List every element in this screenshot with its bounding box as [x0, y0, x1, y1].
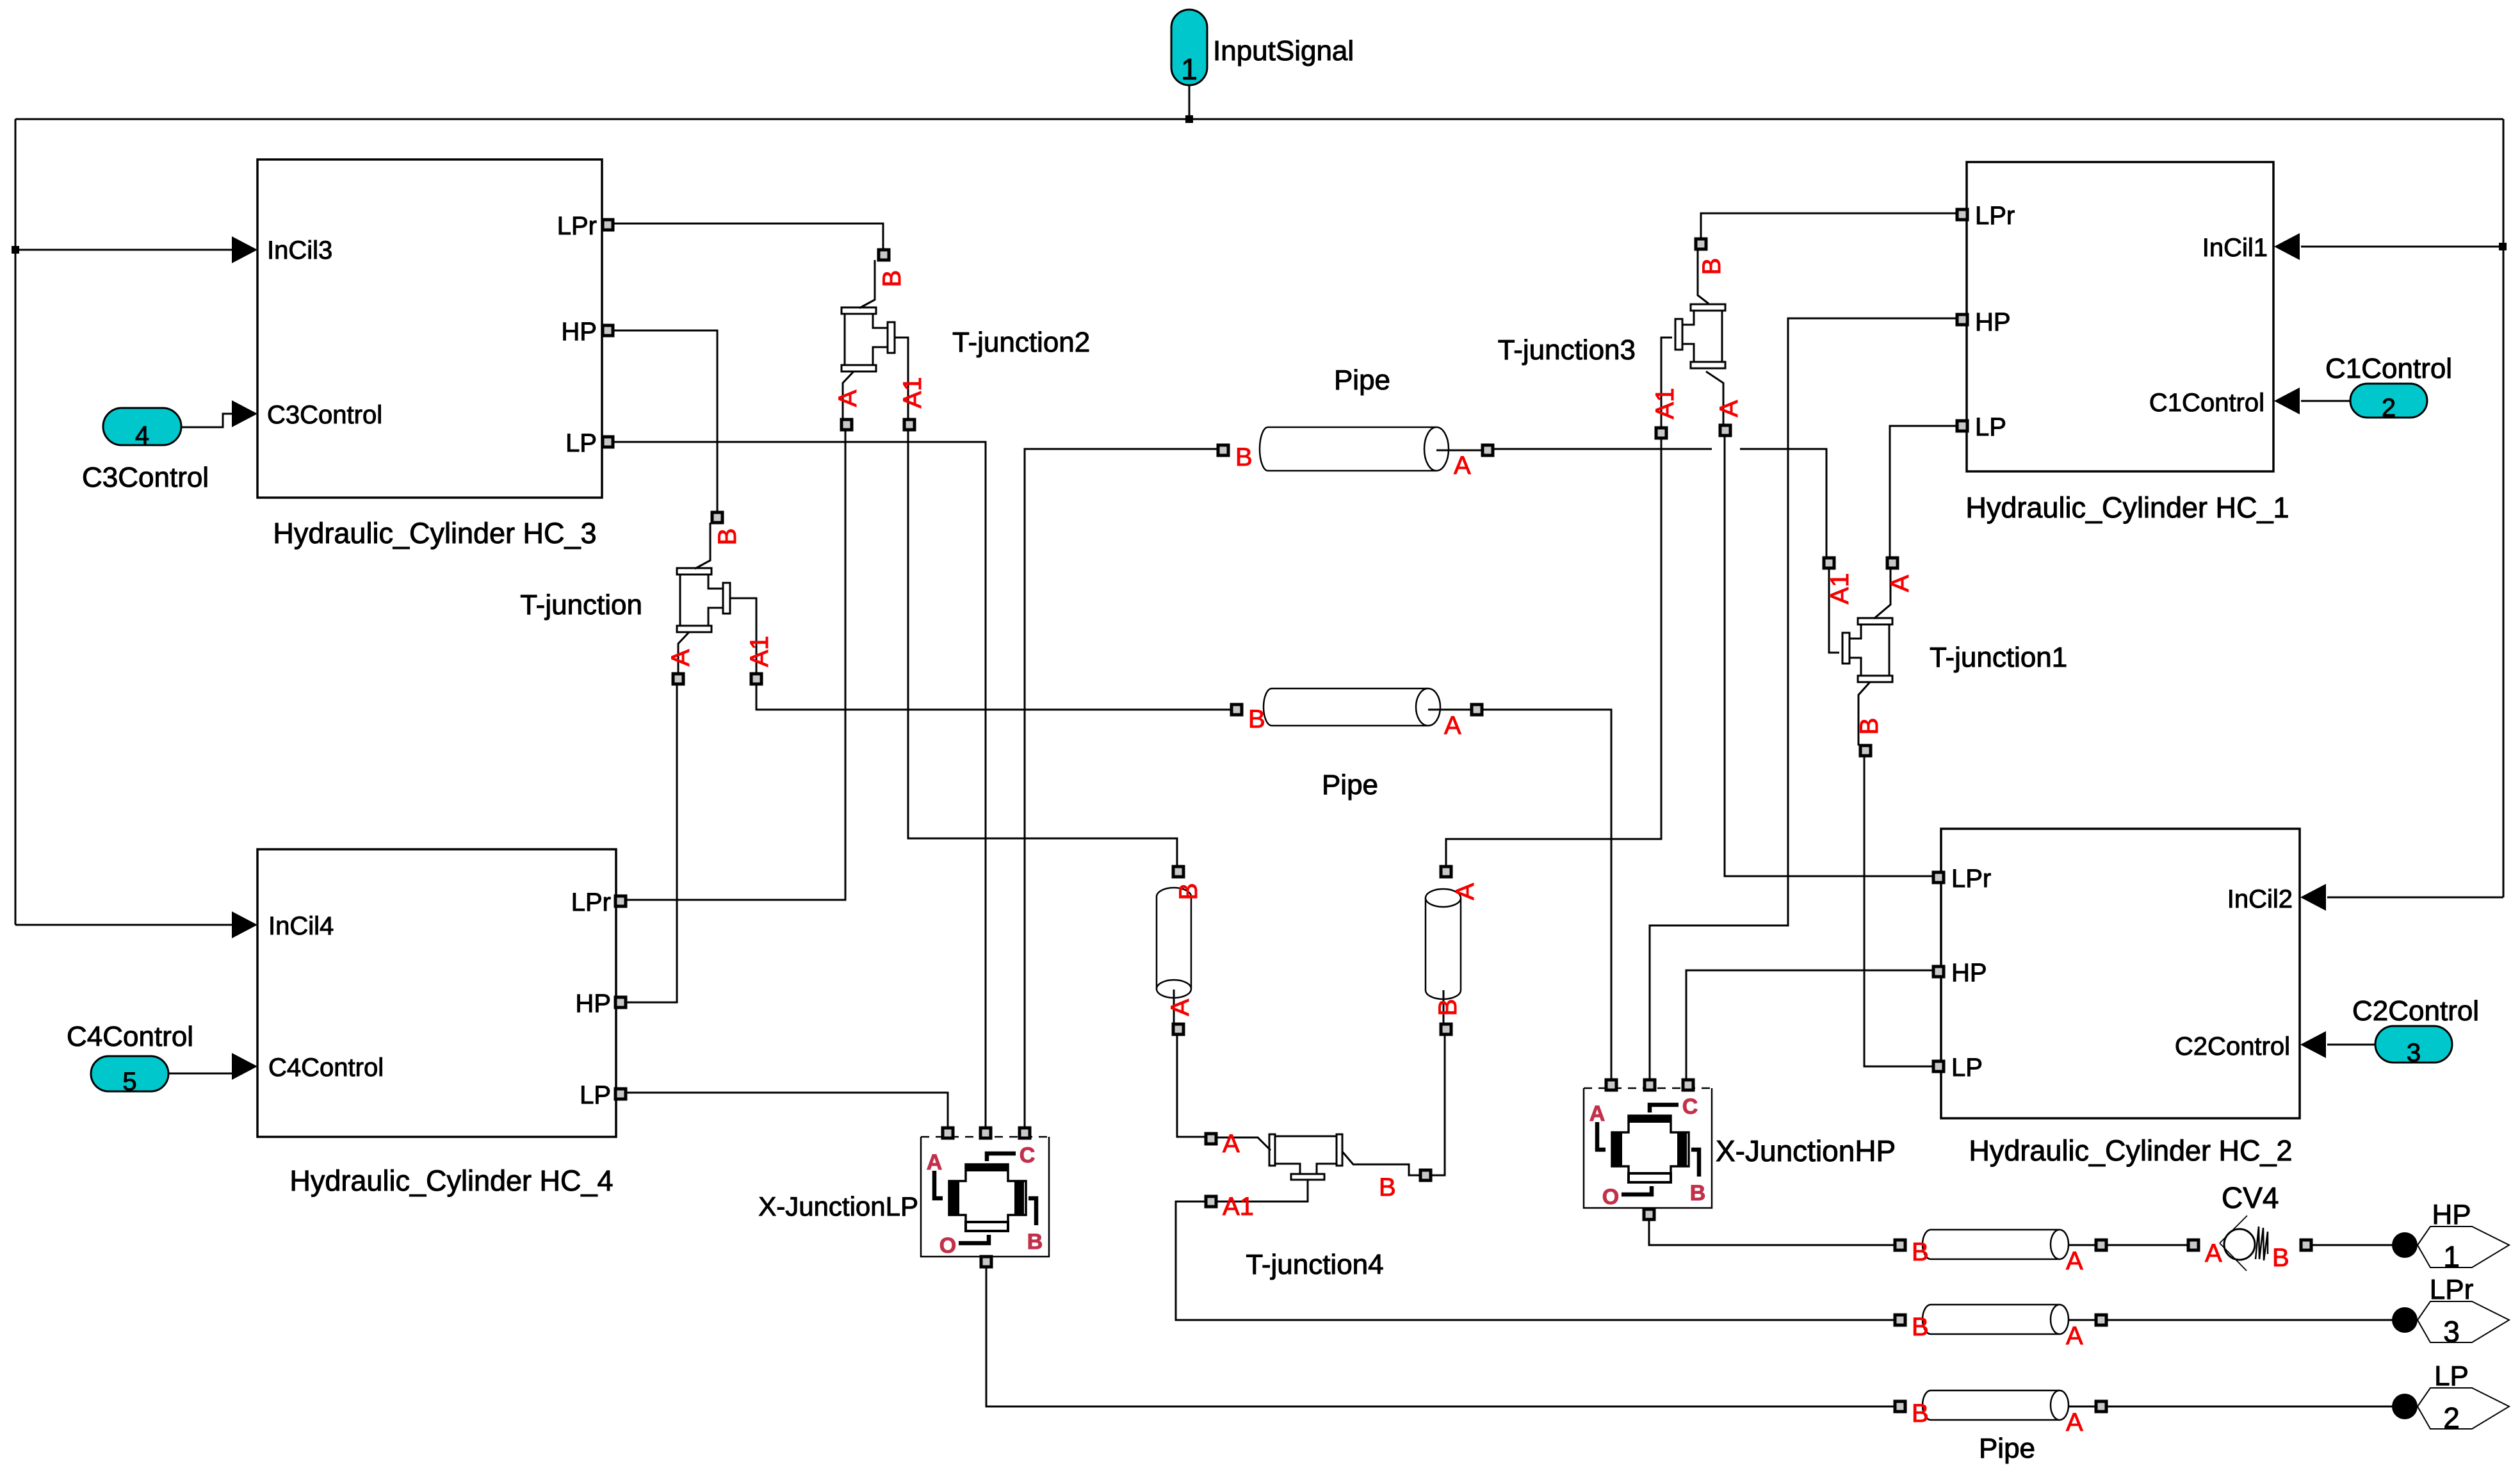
svg-text:C1Control: C1Control [2325, 353, 2452, 384]
left vpipe A stub [1173, 990, 1175, 1024]
svg-text:A: A [1223, 1130, 1240, 1158]
output port LP 2 [2392, 1394, 2418, 1419]
svg-text:3: 3 [2407, 1039, 2421, 1067]
svg-text:A: A [927, 1150, 943, 1175]
wire T-junction.A1 to Pipe2.B [756, 684, 1232, 710]
X-JunctionLP cross icon [949, 1164, 1026, 1231]
Pipe block (left vertical) icon [1157, 897, 1191, 989]
svg-text:A1: A1 [745, 636, 774, 667]
svg-text:A: A [2205, 1239, 2222, 1267]
Pipe2 A stub [1428, 709, 1472, 711]
svg-text:LP: LP [2434, 1360, 2469, 1392]
svg-text:B: B [1698, 258, 1726, 275]
wire T-junction4.A1 to LPr pipe.B [1176, 1202, 1895, 1320]
T-junction2 A1 stub [895, 338, 908, 420]
port square HC_1.LP [1957, 421, 1967, 431]
svg-text:A: A [2066, 1247, 2083, 1275]
port square Pipe2.B [1232, 705, 1242, 715]
svg-text:A: A [1451, 883, 1479, 900]
port square X-JunctionHP.B-top [1683, 1080, 1693, 1090]
wire HC_3.LPr to T-junction2.B [613, 224, 883, 250]
port square T-junction4.A [1206, 1134, 1216, 1144]
port square X-JunctionLP.O-bottom [981, 1257, 991, 1267]
X-JunctionLP port hooks [934, 1171, 943, 1198]
X-JunctionHP block outline [1584, 1088, 1712, 1208]
output port HP 1 [2392, 1232, 2418, 1258]
svg-text:C4Control: C4Control [268, 1054, 384, 1082]
port square HC_1.LPr [1957, 209, 1967, 220]
port square T-junction.B [712, 512, 722, 523]
wire T-junction3.A to HC_2.LPr [1725, 436, 1933, 876]
X-JunctionLP block outline [921, 1137, 1049, 1257]
block Hydraulic_Cylinder HC_4 [257, 849, 616, 1137]
port square HC_2.HP [1933, 966, 1944, 977]
wire T-junction4.B to rightpipe.B [1431, 1035, 1445, 1175]
svg-text:A: A [1715, 400, 1743, 417]
svg-text:A: A [1444, 712, 1461, 740]
port square T-junction.A1 [751, 674, 761, 684]
port square T-junction4.B [1420, 1170, 1431, 1180]
T-junction4 A1 stub [1217, 1180, 1308, 1202]
port square LPpipe.B [1895, 1401, 1905, 1412]
wire X-JunctionLP.B to Pipe1.B [1025, 449, 1218, 1128]
port square leftpipe.B [1173, 867, 1183, 877]
port square LPpipe.A [2096, 1401, 2106, 1412]
wire Pipe1.A east segment [1493, 448, 1712, 450]
port square Pipe1.A [1483, 445, 1493, 455]
wire to T-junction1.A1 (after hop gap) [1740, 449, 1826, 558]
svg-text:O: O [1602, 1185, 1619, 1209]
svg-text:Hydraulic_Cylinder HC_4: Hydraulic_Cylinder HC_4 [289, 1164, 613, 1197]
svg-text:HP: HP [2432, 1199, 2471, 1230]
svg-text:A: A [667, 649, 695, 666]
wire T-junction1.B to HC_2.LP [1864, 756, 1933, 1066]
port square HC_4.LPr [615, 896, 626, 906]
svg-text:Pipe: Pipe [1979, 1433, 2035, 1464]
svg-text:Pipe: Pipe [1322, 769, 1378, 801]
wire T-junction2.A to HC_4.LPr [626, 430, 845, 900]
arrow C3Control [232, 400, 257, 427]
svg-text:B: B [1175, 883, 1203, 900]
T-junction3 A stub [1706, 371, 1723, 425]
T-junction2 A stub [843, 371, 854, 420]
wire right drop [2503, 119, 2505, 897]
svg-text:LPr: LPr [571, 888, 611, 917]
svg-text:Hydraulic_Cylinder HC_1: Hydraulic_Cylinder HC_1 [1965, 491, 2289, 524]
T-junction1 A1 stub [1829, 568, 1839, 653]
T-junction2 B stub [859, 260, 875, 308]
svg-text:A: A [1589, 1102, 1605, 1126]
wire to InCil2 [2327, 897, 2503, 899]
wire top bus [15, 118, 2503, 120]
wire C2Control to HC_2 [2327, 1044, 2375, 1046]
svg-text:Pipe: Pipe [1334, 364, 1390, 396]
Pipe block (top middle) icon [1268, 427, 1436, 471]
port square HC_3.LP [603, 437, 613, 447]
svg-text:O: O [939, 1234, 956, 1258]
wire HC_3.LP to X-JunctionLP.C [613, 442, 986, 1128]
inport 2 C1Control [2350, 384, 2427, 418]
svg-text:B: B [1235, 443, 1253, 471]
svg-text:InCil4: InCil4 [268, 912, 334, 940]
LPr pipe A stub [2069, 1319, 2096, 1321]
port square CV4.A [2188, 1240, 2199, 1250]
svg-text:A1: A1 [1826, 573, 1854, 605]
arrow InCil2 [2300, 884, 2326, 911]
port square Pipe1.B [1218, 445, 1228, 455]
svg-text:T-junction: T-junction [520, 589, 642, 621]
junction InputSignal/top bus [1185, 115, 1193, 123]
port square HC_2.LP [1933, 1061, 1944, 1072]
svg-text:2: 2 [2443, 1401, 2460, 1435]
wire Pipe2.A to X-JunctionHP.A [1482, 710, 1611, 1080]
port square rightpipe.A [1441, 867, 1451, 877]
wire LPpipe.A to outport LP [2107, 1406, 2393, 1408]
port square X-JunctionHP.C-top [1645, 1080, 1655, 1090]
wire leftpipe.A to T-junction4.A [1177, 1035, 1205, 1137]
svg-text:CV4: CV4 [2222, 1181, 2279, 1214]
T-junction4 B stub [1342, 1152, 1420, 1175]
port square T-junction4.A1 [1206, 1196, 1216, 1207]
port square X-JunctionLP.A-top [943, 1128, 953, 1138]
X-JunctionHP cross icon [1612, 1116, 1689, 1182]
Pipe block (LP row) icon [1931, 1390, 2060, 1420]
port square T-junction.A [673, 674, 683, 684]
junction left InCil3 branch [12, 246, 19, 254]
wire C4Control to HC_4 [168, 1066, 238, 1073]
Pipe block (LPr row) icon [1931, 1305, 2060, 1334]
svg-text:X-JunctionLP: X-JunctionLP [758, 1191, 918, 1221]
port square T-junction2.B [879, 250, 889, 260]
T-junction3 A1 stub [1661, 338, 1672, 428]
svg-text:A1: A1 [1223, 1193, 1254, 1221]
svg-text:C3Control: C3Control [82, 462, 209, 493]
LP pipe A stub [2069, 1406, 2096, 1408]
svg-text:B: B [1248, 705, 1265, 733]
svg-text:A: A [1886, 575, 1914, 592]
wire HC_1.LP to T-junction1.A [1890, 426, 1957, 558]
port square Pipe2.A [1472, 705, 1482, 715]
svg-text:1: 1 [2443, 1240, 2460, 1273]
svg-text:B: B [713, 528, 742, 546]
port square T-junction3.B [1696, 239, 1706, 249]
svg-text:X-JunctionHP: X-JunctionHP [1716, 1134, 1896, 1168]
svg-text:LPr: LPr [557, 212, 597, 240]
HP pipe A stub [2069, 1244, 2096, 1246]
svg-text:B: B [878, 270, 906, 288]
wire C3Control to HC_3 [181, 414, 233, 427]
arrow InCil3 [232, 236, 257, 263]
svg-text:B: B [1690, 1181, 1706, 1205]
svg-text:1: 1 [1181, 53, 1198, 86]
Pipe block (HP row) icon [1931, 1230, 2060, 1259]
arrow InCil1 [2274, 233, 2300, 260]
svg-text:LPr: LPr [1951, 865, 1991, 893]
T-junction1 A stub [1874, 568, 1890, 619]
wire HC_2.HP to X-JunctionHP.B [1686, 970, 1933, 1080]
X-JunctionHP port hooks [1597, 1122, 1605, 1150]
wire HPpipe.A to CV4.A [2107, 1244, 2188, 1246]
wire to InCil1 [2301, 246, 2503, 248]
svg-text:HP: HP [561, 318, 597, 346]
svg-text:4: 4 [135, 421, 149, 450]
svg-text:A: A [1454, 452, 1471, 480]
svg-text:T-junction1: T-junction1 [1930, 642, 2067, 673]
T-junction4 icon [1275, 1136, 1337, 1174]
T-junction icon [680, 575, 723, 626]
wire to InCil3 [15, 249, 233, 251]
right vpipe B stub [1443, 990, 1445, 1024]
inport 1 InputSignal [1171, 10, 1207, 85]
wire HC_3.HP to T-junction.B [613, 330, 717, 512]
output port LPr 3 [2392, 1307, 2418, 1333]
port square rightpipe.B [1441, 1024, 1451, 1034]
svg-text:LPr: LPr [2430, 1274, 2473, 1305]
block Hydraulic_Cylinder HC_2 [1941, 829, 2300, 1118]
port square HC_4.LP [615, 1089, 626, 1099]
T-junction2 icon [845, 314, 888, 365]
port square T-junction1.A1 [1824, 558, 1834, 568]
wire X-JunctionLP.O to LP pipe.B [986, 1267, 1895, 1406]
CV4 check valve icon [2224, 1229, 2255, 1260]
svg-text:B: B [1027, 1230, 1043, 1254]
svg-text:3: 3 [2443, 1315, 2460, 1348]
port square HPpipe.B [1895, 1240, 1905, 1250]
svg-text:LPr: LPr [1975, 202, 2015, 230]
svg-text:A: A [2066, 1408, 2083, 1437]
svg-text:A: A [2066, 1322, 2083, 1350]
svg-text:T-junction4: T-junction4 [1246, 1249, 1383, 1280]
T-junction3 B stub [1698, 249, 1709, 304]
wire LPrpipe.A to outport LPr [2107, 1319, 2393, 1321]
wire T-junction.A to HC_4.HP [626, 684, 677, 1002]
T-junction B stub [695, 523, 710, 569]
port square T-junction3.A1 [1656, 428, 1666, 438]
port square T-junction1.B [1860, 746, 1871, 756]
port square T-junction2.A1 [904, 420, 915, 430]
Pipe block (right vertical) icon [1426, 898, 1461, 990]
T-junction1 icon [1849, 624, 1889, 676]
svg-text:T-junction3: T-junction3 [1498, 334, 1636, 366]
wire T-junction3.A1 to rightpipe.A [1446, 438, 1661, 867]
inport 3 C2Control [2375, 1026, 2452, 1063]
svg-text:B: B [1912, 1238, 1929, 1266]
arrow C4Control [232, 1053, 257, 1080]
arrow C2Control [2300, 1031, 2326, 1058]
port square HC_2.LPr [1933, 872, 1944, 883]
wire left drop [15, 119, 17, 925]
wire CV4.B to outport HP [2312, 1244, 2393, 1246]
svg-text:T-junction2: T-junction2 [952, 327, 1090, 358]
port square CV4.B [2301, 1240, 2311, 1250]
port square leftpipe.A [1173, 1024, 1183, 1034]
wire C1Control to HC_1 [2301, 400, 2350, 402]
svg-text:C: C [1020, 1143, 1036, 1168]
svg-text:B: B [2272, 1244, 2289, 1272]
svg-text:C: C [1682, 1095, 1698, 1119]
Pipe1 A stub [1436, 450, 1483, 452]
wire X-JunctionHP.O to HP pipe.B [1649, 1219, 1895, 1245]
svg-text:C1Control: C1Control [2149, 389, 2264, 417]
svg-text:5: 5 [122, 1068, 136, 1096]
svg-text:HP: HP [575, 990, 611, 1018]
T-junction3 icon [1682, 311, 1722, 362]
wire T-junction2.A1 to leftpipe.B [908, 430, 1177, 867]
svg-text:C3Control: C3Control [267, 401, 382, 429]
port square HC_4.HP [615, 997, 626, 1007]
inport 4 C3Control [103, 408, 181, 445]
arrow InCil4 [232, 911, 257, 938]
port square X-JunctionHP.A-top [1606, 1080, 1616, 1090]
T-junction A stub [678, 632, 689, 674]
port square X-JunctionLP.B-top [1020, 1128, 1030, 1138]
wire InputSignal drop [1189, 85, 1191, 119]
wire HC_1.HP to X-JunctionHP.C [1650, 318, 1957, 1080]
port square T-junction3.A [1720, 425, 1730, 436]
T-junction4 A stub [1217, 1137, 1271, 1150]
port square HC_3.LPr [603, 220, 613, 230]
port square T-junction1.A [1887, 558, 1898, 568]
svg-text:LP: LP [565, 429, 597, 457]
Pipe block (middle) icon [1272, 689, 1428, 726]
T-junction1 B stub [1858, 682, 1870, 746]
svg-text:A1: A1 [898, 377, 927, 409]
svg-text:C2Control: C2Control [2352, 995, 2479, 1027]
svg-text:B: B [1912, 1313, 1929, 1341]
wire T-junction3.B to HC_1.LPr [1701, 213, 1957, 239]
svg-text:HP: HP [1975, 308, 2011, 336]
svg-text:Hydraulic_Cylinder HC_3: Hydraulic_Cylinder HC_3 [273, 517, 596, 550]
port square X-JunctionHP.O-bottom [1644, 1209, 1654, 1219]
svg-text:InCil2: InCil2 [2227, 885, 2293, 913]
svg-text:InputSignal: InputSignal [1213, 35, 1354, 67]
svg-text:B: B [1434, 999, 1462, 1016]
svg-text:B: B [1855, 718, 1883, 735]
svg-text:LP: LP [1951, 1054, 1983, 1082]
svg-text:A: A [834, 389, 862, 407]
port square X-JunctionLP.C-top [980, 1128, 991, 1138]
svg-text:LP: LP [580, 1081, 611, 1109]
svg-text:C2Control: C2Control [2175, 1032, 2290, 1061]
svg-text:LP: LP [1975, 413, 2006, 441]
port square LPrpipe.A [2096, 1315, 2106, 1325]
svg-text:HP: HP [1951, 959, 1987, 987]
block Hydraulic_Cylinder HC_3 [257, 159, 602, 498]
svg-text:A: A [1166, 998, 1194, 1016]
port square HC_1.HP [1957, 314, 1967, 325]
port square HPpipe.A [2096, 1240, 2106, 1250]
svg-text:InCil1: InCil1 [2202, 234, 2268, 262]
T-junction A1 stub [730, 598, 756, 674]
svg-text:C4Control: C4Control [67, 1021, 193, 1052]
svg-text:B: B [1379, 1173, 1396, 1202]
svg-text:2: 2 [2382, 394, 2396, 422]
wire to InCil4 [15, 924, 233, 926]
svg-text:B: B [1912, 1399, 1929, 1428]
arrow C1Control [2274, 387, 2300, 414]
wire HC_4.LP to X-JunctionLP.A [626, 1093, 948, 1128]
port square T-junction2.A [841, 420, 852, 430]
svg-text:Hydraulic_Cylinder HC_2: Hydraulic_Cylinder HC_2 [1969, 1134, 2292, 1167]
port square HC_3.HP [603, 325, 613, 336]
port square LPrpipe.B [1895, 1315, 1905, 1325]
svg-text:A1: A1 [1651, 388, 1679, 420]
junction right InCil1 branch [2499, 243, 2507, 250]
inport 5 C4Control [91, 1056, 168, 1091]
block Hydraulic_Cylinder HC_1 [1967, 162, 2273, 471]
svg-text:InCil3: InCil3 [267, 236, 332, 265]
